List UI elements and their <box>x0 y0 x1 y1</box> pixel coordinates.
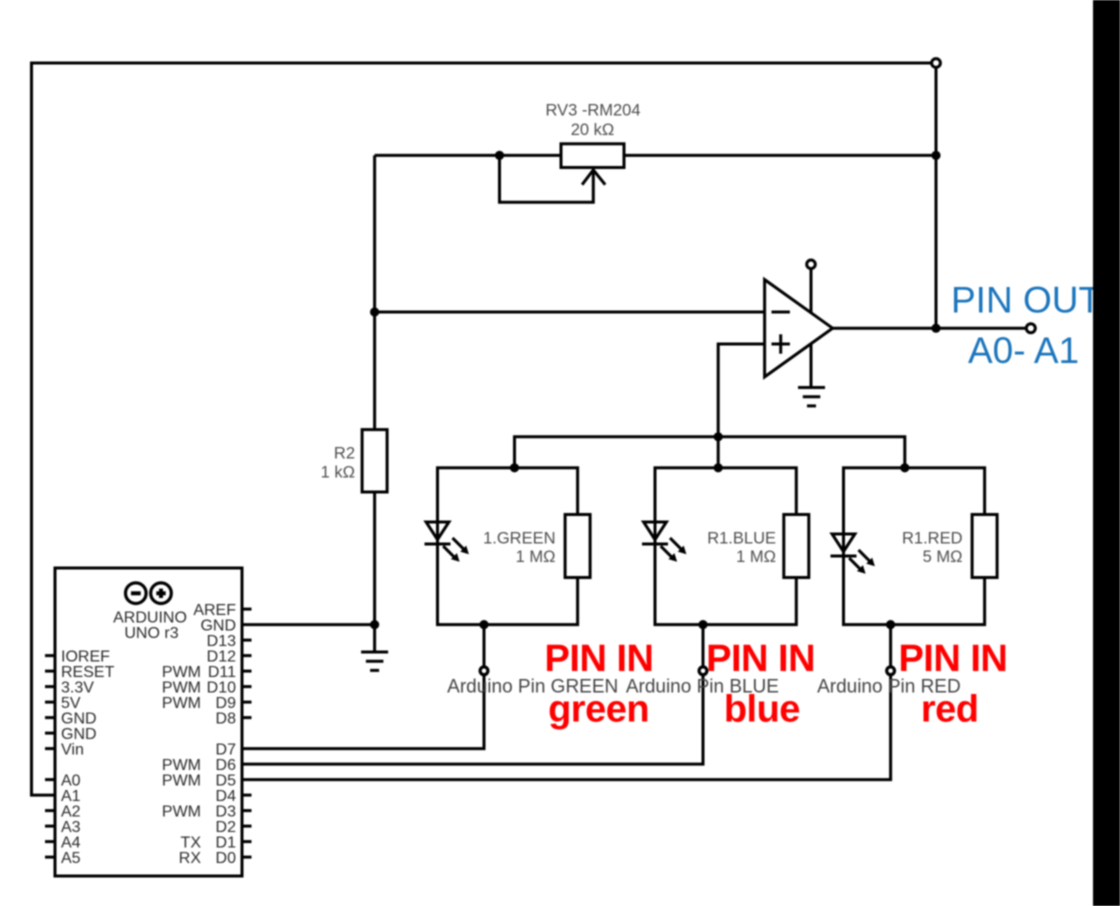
svg-text:PWM: PWM <box>162 804 201 821</box>
svg-text:R1.RED: R1.RED <box>902 530 963 548</box>
svg-text:IOREF: IOREF <box>61 649 110 666</box>
svg-text:20 kΩ: 20 kΩ <box>571 121 615 139</box>
Arduino left pin labels <box>61 649 115 868</box>
resistor R1.RED 5 MΩ <box>902 515 997 578</box>
svg-text:A5: A5 <box>61 850 81 867</box>
wire blue branch riser <box>717 437 720 468</box>
wire right trunk <box>935 63 938 328</box>
node blue bottom <box>698 620 707 629</box>
node pot wiper junction <box>495 151 504 160</box>
wire minus input rail <box>375 311 765 314</box>
svg-text:A1: A1 <box>61 788 81 805</box>
svg-text:GND: GND <box>200 618 236 635</box>
svg-text:GND: GND <box>61 711 97 728</box>
resistor R2 <box>321 430 387 492</box>
svg-text:PWM: PWM <box>162 664 201 681</box>
black bar right edge <box>1093 0 1120 906</box>
node green top <box>510 463 519 472</box>
wire ground stub below R2 <box>373 625 376 652</box>
wire green loop <box>438 468 578 625</box>
svg-text:PIN IN: PIN IN <box>706 638 815 680</box>
svg-text:PWM: PWM <box>162 695 201 712</box>
terminal PIN OUT <box>1026 324 1035 333</box>
svg-text:D13: D13 <box>207 633 236 650</box>
svg-text:5 MΩ: 5 MΩ <box>923 548 963 566</box>
svg-text:1 MΩ: 1 MΩ <box>516 548 556 566</box>
node pot right / trunk <box>931 151 940 160</box>
svg-text:1 kΩ: 1 kΩ <box>321 464 355 482</box>
LED R1.RED <box>831 534 875 574</box>
wire plus input <box>718 344 764 437</box>
node minus rail <box>370 307 379 316</box>
svg-text:3.3V: 3.3V <box>61 680 94 697</box>
Arduino PWM / TX / RX labels <box>162 664 201 867</box>
svg-text:D9: D9 <box>216 695 237 712</box>
svg-text:PWM: PWM <box>162 757 201 774</box>
svg-text:PIN IN: PIN IN <box>545 638 654 680</box>
svg-text:RX: RX <box>179 850 202 867</box>
ground below op-amp <box>798 388 825 406</box>
svg-text:R1.BLUE: R1.BLUE <box>707 530 776 548</box>
svg-text:RESET: RESET <box>61 664 115 681</box>
svg-text:D12: D12 <box>207 649 236 666</box>
node green bottom <box>479 620 488 629</box>
terminal Arduino Pin GREEN <box>480 667 488 675</box>
terminal Arduino Pin RED <box>887 667 895 675</box>
svg-text:D1: D1 <box>216 835 237 852</box>
svg-text:D4: D4 <box>216 788 237 805</box>
svg-text:A0: A0 <box>61 773 81 790</box>
Arduino logo <box>126 583 172 604</box>
svg-text:D2: D2 <box>216 819 237 836</box>
node plus rail <box>714 432 723 441</box>
svg-text:D8: D8 <box>216 711 237 728</box>
svg-text:A3: A3 <box>61 819 81 836</box>
svg-text:A0- A1: A0- A1 <box>968 330 1079 371</box>
resistor 1.GREEN 1 MΩ <box>483 515 590 578</box>
LED R1.BLUE <box>642 522 686 562</box>
svg-text:A2: A2 <box>61 804 81 821</box>
wire top rail of LED branches <box>515 437 905 468</box>
svg-text:PIN OUT: PIN OUT <box>951 280 1101 321</box>
Arduino right pin stubs <box>241 609 252 857</box>
svg-text:PIN IN: PIN IN <box>898 638 1007 680</box>
svg-text:D0: D0 <box>216 850 237 867</box>
wire left column: pot to R2 to ground junction <box>373 155 376 624</box>
svg-text:red: red <box>921 689 979 731</box>
svg-text:AREF: AREF <box>193 602 236 619</box>
svg-text:D10: D10 <box>207 680 236 697</box>
svg-text:Vin: Vin <box>61 742 84 759</box>
terminal top right <box>932 59 941 68</box>
wire potentiometer row <box>375 154 936 157</box>
Arduino left pin stubs <box>45 656 57 858</box>
node red top <box>900 463 909 472</box>
svg-text:5V: 5V <box>61 695 81 712</box>
wire red pin drop to D5 <box>242 625 891 780</box>
node blue top <box>714 463 723 472</box>
wire blue pin drop to D6 <box>242 625 703 765</box>
svg-text:D5: D5 <box>216 773 237 790</box>
svg-text:D7: D7 <box>216 742 237 759</box>
wire red loop <box>844 468 985 625</box>
svg-text:D6: D6 <box>216 757 237 774</box>
svg-text:TX: TX <box>181 835 202 852</box>
wire op-amp output <box>833 327 1027 330</box>
wire green pin drop to D7 <box>242 625 484 749</box>
wire pot wiper return <box>500 155 594 202</box>
svg-text:1.GREEN: 1.GREEN <box>483 530 555 548</box>
resistor R1.BLUE 1 MΩ <box>707 515 809 578</box>
wire GND Arduino to ground <box>242 623 375 626</box>
node R2 bottom / GND <box>370 620 379 629</box>
op-amp U1 <box>765 280 833 377</box>
svg-text:A4: A4 <box>61 835 81 852</box>
Arduino right pin labels <box>193 602 236 867</box>
ground below R2 <box>361 652 388 670</box>
svg-text:D11: D11 <box>208 664 236 681</box>
svg-text:RV3 -RM204: RV3 -RM204 <box>545 102 640 120</box>
svg-text:1 MΩ: 1 MΩ <box>736 548 776 566</box>
wire blue loop <box>655 468 796 625</box>
svg-text:R2: R2 <box>334 445 355 463</box>
Arduino UNO r3 module <box>55 568 242 876</box>
svg-text:PWM: PWM <box>162 680 201 697</box>
op-amp power pin <box>807 260 816 388</box>
potentiometer RV3 -RM204 <box>545 102 640 185</box>
node output / trunk <box>931 324 940 333</box>
node red bottom <box>886 620 895 629</box>
wire feedback loop: A1 pin up left side and across top <box>32 63 935 795</box>
svg-text:D3: D3 <box>216 804 237 821</box>
svg-text:blue: blue <box>724 689 800 731</box>
svg-text:UNO r3: UNO r3 <box>124 625 178 642</box>
terminal Arduino Pin BLUE <box>699 667 707 675</box>
svg-text:GND: GND <box>61 726 97 743</box>
svg-text:PWM: PWM <box>162 773 201 790</box>
svg-text:ARDUINO: ARDUINO <box>113 610 187 627</box>
LED 1.GREEN <box>425 522 469 562</box>
svg-text:green: green <box>548 689 649 731</box>
